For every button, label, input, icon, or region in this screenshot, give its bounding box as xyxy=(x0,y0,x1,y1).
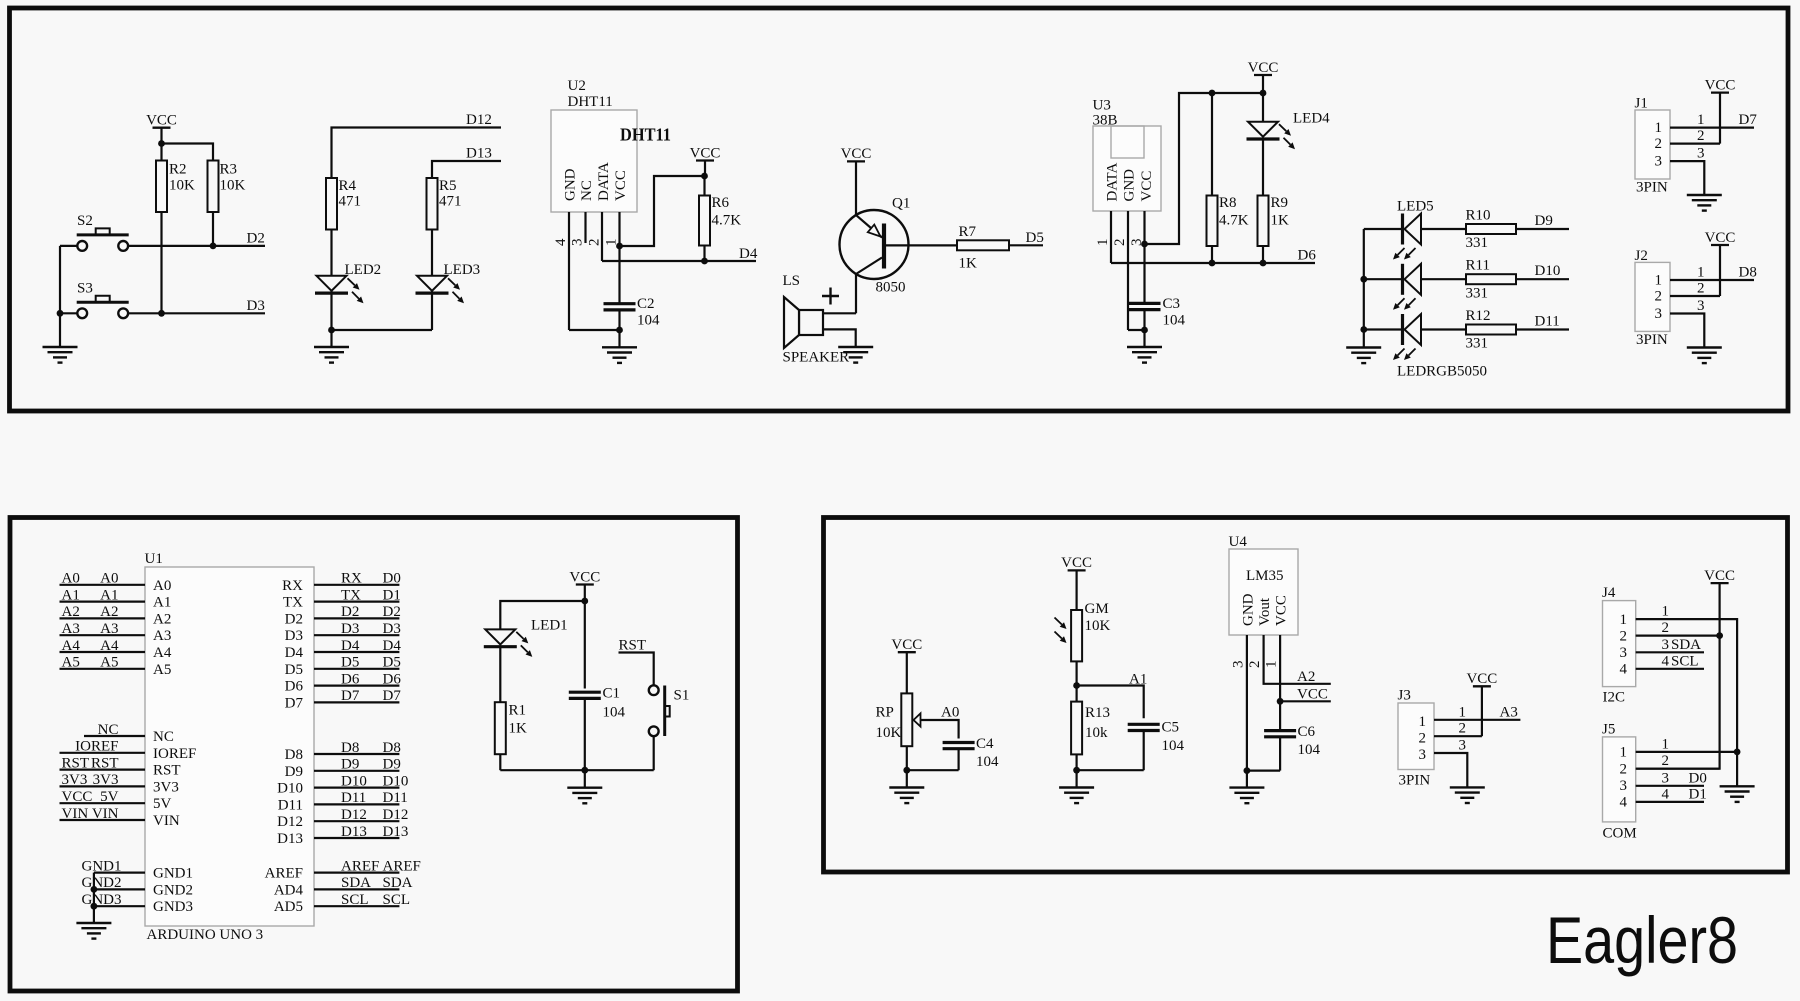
svg-text:DHT11: DHT11 xyxy=(568,94,613,110)
pin 4 wire SCL xyxy=(1636,668,1704,670)
svg-text:VCC: VCC xyxy=(146,113,177,129)
svg-text:SCL: SCL xyxy=(383,892,411,908)
svg-text:GND: GND xyxy=(1122,169,1138,202)
svg-text:C4: C4 xyxy=(976,736,994,752)
svg-text:1: 1 xyxy=(1697,112,1705,128)
svg-text:4: 4 xyxy=(1662,786,1670,802)
resistor R13 xyxy=(1071,702,1110,755)
pin 2 wire xyxy=(1636,634,1720,636)
svg-text:104: 104 xyxy=(603,705,626,721)
svg-text:SPEAKER: SPEAKER xyxy=(783,350,850,366)
pin D13 (right) xyxy=(277,824,408,847)
svg-text:VCC: VCC xyxy=(1061,555,1092,571)
wire xyxy=(1364,328,1401,330)
ground (LED5) xyxy=(1346,330,1381,364)
node VCC junction xyxy=(701,173,708,180)
resistor R3 xyxy=(208,161,246,213)
svg-text:C2: C2 xyxy=(637,296,655,312)
wire D3 xyxy=(128,312,265,314)
pin 5V (left) xyxy=(60,789,172,812)
pin 3V3 (left) xyxy=(60,772,179,795)
svg-text:2: 2 xyxy=(1655,136,1663,152)
node S3 junction xyxy=(57,310,64,317)
pin AREF (right) xyxy=(265,858,421,881)
svg-text:D8: D8 xyxy=(341,740,359,756)
wire xyxy=(1421,228,1466,230)
pin 1 wire xyxy=(1670,279,1754,281)
wire xyxy=(500,601,585,629)
svg-text:D11: D11 xyxy=(341,790,366,806)
node VCC junction xyxy=(1716,632,1723,639)
svg-text:AREF: AREF xyxy=(383,858,421,874)
pin D6 (right) xyxy=(285,671,402,694)
svg-text:A1: A1 xyxy=(62,587,80,603)
VCC (GM) xyxy=(1061,555,1092,571)
svg-text:A5: A5 xyxy=(100,655,118,671)
svg-text:D10: D10 xyxy=(383,773,409,789)
node GND junction xyxy=(903,767,910,774)
svg-text:LS: LS xyxy=(783,273,801,289)
svg-text:2: 2 xyxy=(1459,721,1467,737)
wire emitter xyxy=(855,274,857,313)
connector J5 body xyxy=(1602,722,1637,842)
wire xyxy=(1128,329,1145,331)
wire D13 xyxy=(432,161,501,178)
svg-text:NC: NC xyxy=(153,729,174,745)
LED LED5 element 3 xyxy=(1393,314,1421,360)
svg-text:LED2: LED2 xyxy=(345,262,382,278)
frame: bottom-left section border xyxy=(10,518,738,992)
svg-text:VCC: VCC xyxy=(1248,60,1279,76)
svg-text:1: 1 xyxy=(1620,612,1628,628)
connector J1 body xyxy=(1635,96,1671,196)
pin AD4 (right) xyxy=(274,875,413,898)
svg-text:D4: D4 xyxy=(341,638,360,654)
svg-text:D9: D9 xyxy=(285,764,303,780)
pin D2 (right) xyxy=(285,604,401,627)
svg-text:10K: 10K xyxy=(1085,618,1111,634)
svg-text:AD5: AD5 xyxy=(274,899,303,915)
svg-text:A3: A3 xyxy=(62,621,80,637)
wire xyxy=(431,230,433,331)
svg-text:D7: D7 xyxy=(1739,112,1758,128)
svg-text:A1: A1 xyxy=(100,587,118,603)
resistor R5 xyxy=(427,178,462,230)
wire GND pin xyxy=(1246,635,1248,771)
ground (C1) xyxy=(567,770,602,803)
pin RST (left) xyxy=(60,755,181,778)
svg-text:A4: A4 xyxy=(62,638,81,654)
pin D12 (right) xyxy=(277,807,408,830)
svg-text:DATA: DATA xyxy=(596,162,612,201)
pin 1 wire A3 xyxy=(1434,719,1520,721)
wire xyxy=(1077,769,1144,771)
svg-text:D9: D9 xyxy=(383,757,401,773)
wire xyxy=(1211,93,1213,196)
connector J3 body xyxy=(1398,688,1435,789)
wire xyxy=(906,652,908,693)
pin D3 (right) xyxy=(285,621,401,644)
wire D12 xyxy=(332,128,502,179)
capacitor C5 xyxy=(1128,720,1185,755)
node GND3 junction xyxy=(91,903,98,910)
svg-text:3PIN: 3PIN xyxy=(1399,773,1431,789)
svg-text:1: 1 xyxy=(1419,714,1427,730)
svg-text:D3: D3 xyxy=(285,628,303,644)
svg-text:Eagler8: Eagler8 xyxy=(1546,904,1738,977)
svg-text:U3: U3 xyxy=(1093,98,1111,114)
svg-text:VCC: VCC xyxy=(891,637,922,653)
resistor R7 xyxy=(957,224,1009,272)
wire xyxy=(212,212,214,246)
svg-text:331: 331 xyxy=(1466,285,1489,301)
svg-text:RST: RST xyxy=(91,755,119,771)
VCC (U2/R6) xyxy=(690,145,721,161)
svg-text:VCC: VCC xyxy=(1139,171,1155,202)
resistor R8 xyxy=(1207,195,1249,246)
pin 1 wire xyxy=(1670,126,1754,128)
svg-text:38B: 38B xyxy=(1093,113,1118,129)
svg-text:1: 1 xyxy=(1662,736,1670,752)
wire xyxy=(1211,246,1213,263)
svg-text:3: 3 xyxy=(1620,778,1628,794)
wire xyxy=(584,601,586,689)
svg-text:104: 104 xyxy=(1298,742,1321,758)
ground (J2) xyxy=(1687,348,1722,364)
svg-text:331: 331 xyxy=(1466,235,1489,251)
VCC (J1) xyxy=(1705,77,1736,93)
wire GND pin xyxy=(568,212,570,330)
svg-text:D0: D0 xyxy=(1689,770,1707,786)
svg-text:D11: D11 xyxy=(278,797,303,813)
wire xyxy=(653,736,655,770)
wire xyxy=(584,585,586,602)
node D2 junction xyxy=(210,243,217,250)
svg-text:D4: D4 xyxy=(739,246,758,262)
svg-text:J1: J1 xyxy=(1635,96,1648,112)
svg-text:D5: D5 xyxy=(1026,230,1044,246)
wire xyxy=(618,310,620,330)
wire xyxy=(1421,278,1466,280)
svg-text:D11: D11 xyxy=(1535,314,1560,330)
VCC (RP) xyxy=(891,637,922,653)
wire D6 xyxy=(1111,262,1315,264)
svg-text:C6: C6 xyxy=(1298,724,1316,740)
node GND junction xyxy=(1141,327,1148,334)
svg-text:1: 1 xyxy=(1264,661,1280,669)
svg-text:LED1: LED1 xyxy=(531,618,568,634)
svg-text:471: 471 xyxy=(439,194,462,210)
svg-text:DATA: DATA xyxy=(1105,163,1121,202)
svg-text:3: 3 xyxy=(570,239,586,247)
VCC (Q1) xyxy=(841,146,872,162)
connector J4 body xyxy=(1602,585,1636,706)
svg-text:1: 1 xyxy=(1655,120,1663,136)
svg-text:2: 2 xyxy=(587,239,603,247)
pin 3 wire D0 xyxy=(1636,785,1704,787)
wire xyxy=(1279,701,1281,730)
svg-text:3: 3 xyxy=(1662,770,1670,786)
node D6 junction R8 xyxy=(1209,260,1216,267)
pin A0 (left) xyxy=(60,571,172,594)
ground (U1) xyxy=(76,923,111,939)
wire GND pin xyxy=(1127,211,1129,330)
svg-text:2: 2 xyxy=(1655,289,1663,305)
svg-text:GND2: GND2 xyxy=(153,882,193,898)
svg-text:VCC: VCC xyxy=(1704,568,1735,584)
ground (U4) xyxy=(1229,771,1264,804)
wire D9 xyxy=(1516,228,1569,230)
svg-text:10K: 10K xyxy=(169,178,195,194)
wire xyxy=(1719,93,1721,144)
ground (J4/J5) xyxy=(1720,786,1755,802)
svg-text:TX: TX xyxy=(283,595,303,611)
pin A3 (left) xyxy=(60,621,172,644)
resistor R2 xyxy=(156,161,195,213)
svg-text:D6: D6 xyxy=(383,671,402,687)
resistor R10 xyxy=(1466,207,1517,251)
svg-text:VIN: VIN xyxy=(62,806,89,822)
svg-text:GND3: GND3 xyxy=(153,899,193,915)
svg-text:2: 2 xyxy=(1662,753,1670,769)
wire xyxy=(1636,583,1720,769)
svg-text:C1: C1 xyxy=(603,686,621,702)
svg-text:3: 3 xyxy=(1459,738,1467,754)
resistor R1 xyxy=(495,702,527,754)
svg-text:NC: NC xyxy=(579,180,595,201)
node GND junction xyxy=(1244,767,1251,774)
svg-text:A3: A3 xyxy=(100,621,118,637)
pin RX (right) xyxy=(282,571,401,594)
node rail junction xyxy=(1260,90,1267,97)
wire xyxy=(1719,245,1721,296)
connector J2 body xyxy=(1635,248,1671,348)
wire DATA pin xyxy=(601,212,603,261)
svg-text:GM: GM xyxy=(1085,601,1109,617)
svg-text:D6: D6 xyxy=(341,671,360,687)
capacitor C3 xyxy=(1129,296,1186,329)
svg-text:3: 3 xyxy=(1620,645,1628,661)
svg-text:4: 4 xyxy=(1620,661,1628,677)
svg-text:D1: D1 xyxy=(383,587,401,603)
svg-text:331: 331 xyxy=(1466,336,1489,352)
svg-text:IOREF: IOREF xyxy=(75,739,118,755)
svg-text:D13: D13 xyxy=(341,824,367,840)
svg-text:8050: 8050 xyxy=(876,280,906,296)
transistor Q1 8050 xyxy=(840,196,911,296)
node A1 junction xyxy=(1073,682,1080,689)
svg-text:Q1: Q1 xyxy=(892,196,910,212)
wire xyxy=(59,246,61,313)
svg-text:NC: NC xyxy=(98,722,119,738)
frame: bottom-right section border xyxy=(824,518,1788,873)
pin D11 (right) xyxy=(278,790,408,813)
ground (R13) xyxy=(1059,770,1094,803)
wire base xyxy=(886,244,957,246)
node VCC junction xyxy=(1141,241,1148,248)
svg-text:3V3: 3V3 xyxy=(93,772,119,788)
svg-text:D9: D9 xyxy=(1535,213,1553,229)
svg-text:AD4: AD4 xyxy=(274,882,304,898)
svg-text:VCC: VCC xyxy=(613,170,629,201)
svg-text:D3: D3 xyxy=(383,621,401,637)
svg-text:J4: J4 xyxy=(1602,585,1616,601)
svg-text:2: 2 xyxy=(1697,128,1705,144)
pin 2 wire xyxy=(1636,768,1720,770)
wire xyxy=(1262,141,1264,196)
VCC (LED4) xyxy=(1248,60,1279,76)
svg-text:VCC: VCC xyxy=(1705,230,1736,246)
ground (J3) xyxy=(1450,787,1485,803)
svg-text:R7: R7 xyxy=(959,224,977,240)
svg-text:2: 2 xyxy=(1247,661,1263,669)
pin TX (right) xyxy=(283,587,401,610)
svg-text:3V3: 3V3 xyxy=(153,779,179,795)
svg-text:D7: D7 xyxy=(341,688,360,704)
svg-text:10k: 10k xyxy=(1085,725,1108,741)
svg-text:D2: D2 xyxy=(341,604,359,620)
wire xyxy=(1143,310,1145,330)
wire xyxy=(60,245,77,247)
pin 3 wire xyxy=(1670,314,1704,348)
svg-text:R11: R11 xyxy=(1466,258,1490,274)
svg-text:D1: D1 xyxy=(1689,786,1707,802)
svg-text:R6: R6 xyxy=(712,195,730,211)
wire D4 xyxy=(602,260,756,262)
ground (J1) xyxy=(1687,195,1722,211)
svg-text:R4: R4 xyxy=(339,178,357,194)
svg-text:DHT11: DHT11 xyxy=(620,125,671,145)
svg-text:A2: A2 xyxy=(1297,669,1315,685)
svg-text:S2: S2 xyxy=(77,213,93,229)
svg-text:AREF: AREF xyxy=(265,866,303,882)
svg-text:A0: A0 xyxy=(941,705,959,721)
node J5 pin1 junction xyxy=(1734,749,1741,756)
LED LED4 xyxy=(1247,111,1331,150)
svg-text:U2: U2 xyxy=(568,78,586,94)
pin 2 wire xyxy=(1670,295,1720,297)
wire D10 xyxy=(1516,278,1569,280)
VCC (LED1/C1) xyxy=(569,569,600,585)
wire xyxy=(1262,246,1264,263)
svg-text:TX: TX xyxy=(341,587,361,603)
svg-text:D2: D2 xyxy=(247,231,265,247)
node VCC junction xyxy=(1277,698,1284,705)
capacitor C6 xyxy=(1264,724,1320,758)
node pin1 junction xyxy=(616,243,623,250)
svg-text:R12: R12 xyxy=(1466,308,1491,324)
svg-text:SDA: SDA xyxy=(341,875,371,891)
ground (U2) xyxy=(602,330,637,363)
pin D4 (right) xyxy=(285,638,402,661)
svg-text:U1: U1 xyxy=(145,551,163,567)
node rail junction xyxy=(1360,276,1367,283)
wire Vout pin A2 xyxy=(1264,635,1331,684)
svg-text:A0: A0 xyxy=(100,571,118,587)
svg-text:4.7K: 4.7K xyxy=(1219,213,1249,229)
svg-text:D13: D13 xyxy=(383,824,409,840)
wire xyxy=(1364,278,1401,280)
pin 2 wire xyxy=(1670,143,1720,145)
wire xyxy=(1247,769,1280,771)
svg-text:D5: D5 xyxy=(285,662,303,678)
pin A4 (left) xyxy=(60,638,172,661)
switch S1 xyxy=(649,685,690,736)
node D4 junction xyxy=(701,258,708,265)
pin A5 (left) xyxy=(60,655,172,678)
svg-text:4: 4 xyxy=(553,238,569,246)
svg-text:C3: C3 xyxy=(1163,296,1181,312)
svg-text:1K: 1K xyxy=(1271,213,1290,229)
svg-text:RX: RX xyxy=(282,578,303,594)
svg-text:A2: A2 xyxy=(62,604,80,620)
wire xyxy=(1075,661,1077,701)
pin NC (left) xyxy=(84,722,174,745)
svg-text:D5: D5 xyxy=(341,655,359,671)
svg-text:3PIN: 3PIN xyxy=(1636,332,1668,348)
svg-text:R1: R1 xyxy=(509,703,527,719)
wire xyxy=(1143,731,1145,770)
pin D9 (right) xyxy=(285,757,401,780)
svg-text:1: 1 xyxy=(1620,745,1628,761)
wire xyxy=(1279,737,1281,770)
svg-text:D7: D7 xyxy=(383,688,402,704)
LED LED3 xyxy=(416,262,481,303)
wire xyxy=(1075,754,1077,770)
wire xyxy=(703,246,705,262)
svg-text:D6: D6 xyxy=(285,679,304,695)
svg-text:D8: D8 xyxy=(1739,265,1757,281)
svg-text:4.7K: 4.7K xyxy=(712,213,742,229)
wire xyxy=(499,754,501,770)
wire xyxy=(1262,93,1264,122)
op-amp U1 ARDUINO UNO 3 body xyxy=(145,551,315,943)
svg-text:VCC: VCC xyxy=(1466,671,1497,687)
ground (RP) xyxy=(889,770,924,803)
svg-text:104: 104 xyxy=(1163,313,1186,329)
pin D10 (right) xyxy=(277,773,408,796)
svg-text:104: 104 xyxy=(637,313,660,329)
svg-text:LED5: LED5 xyxy=(1397,199,1434,215)
wire A0 xyxy=(921,720,959,739)
wire xyxy=(93,873,95,923)
svg-text:R8: R8 xyxy=(1219,195,1237,211)
svg-text:VCC: VCC xyxy=(1297,687,1328,703)
wire xyxy=(1481,686,1483,736)
svg-text:SDA: SDA xyxy=(1671,637,1701,653)
svg-text:471: 471 xyxy=(339,194,362,210)
wire xyxy=(499,648,501,702)
svg-text:3: 3 xyxy=(1231,661,1247,669)
svg-text:SDA: SDA xyxy=(383,875,413,891)
pin A1 (left) xyxy=(60,587,172,610)
wire D11 xyxy=(1516,328,1569,330)
svg-text:4: 4 xyxy=(1620,795,1628,811)
wire D5 xyxy=(1009,244,1043,246)
svg-text:1K: 1K xyxy=(509,721,528,737)
wire VCC pin xyxy=(1279,635,1281,701)
svg-text:A0: A0 xyxy=(153,578,171,594)
pin GND2 xyxy=(82,875,194,898)
svg-text:J2: J2 xyxy=(1635,248,1648,264)
svg-text:R5: R5 xyxy=(439,178,457,194)
wire xyxy=(332,329,433,331)
speaker LS xyxy=(783,273,850,366)
svg-text:1: 1 xyxy=(1662,604,1670,620)
pin AD5 (right) xyxy=(274,892,410,915)
svg-text:D12: D12 xyxy=(277,814,303,830)
svg-text:VCC: VCC xyxy=(841,146,872,162)
